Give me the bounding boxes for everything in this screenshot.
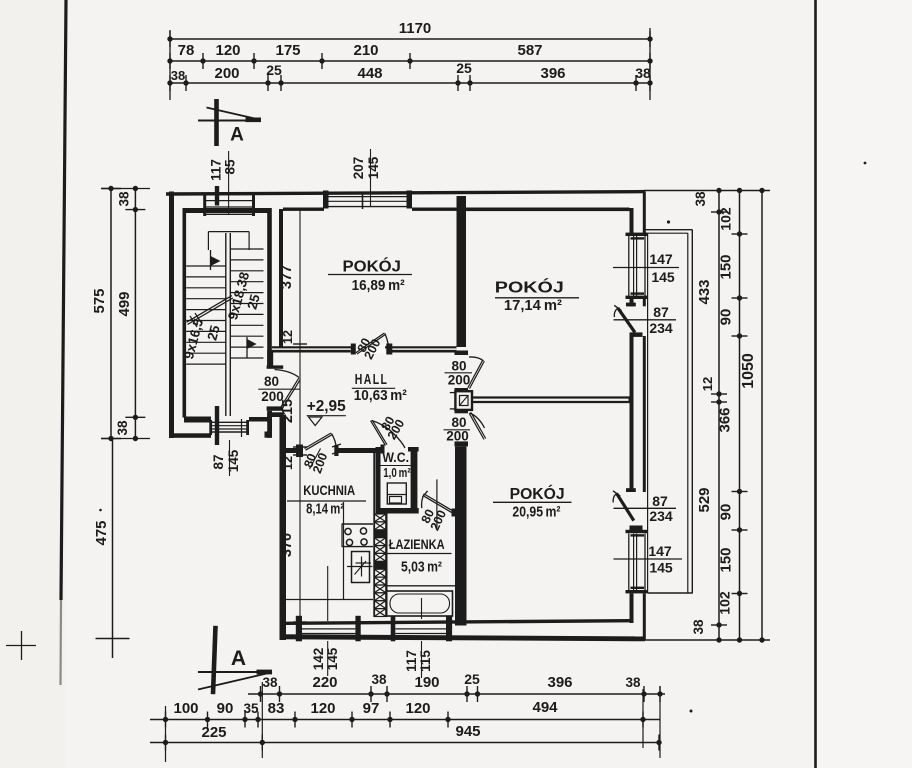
stove 4 burners: [345, 528, 351, 534]
hall west jog wall to kitchen: [267, 412, 283, 417]
svg-text:38: 38: [693, 191, 708, 207]
pokoj 16.89 top window - end caps: [323, 191, 329, 209]
staircase window 87/145 - sill lines: [210, 421, 249, 423]
svg-text:90: 90: [718, 504, 735, 521]
svg-text:117: 117: [404, 650, 419, 672]
paper speck 4: [864, 162, 867, 165]
svg-text:87: 87: [211, 454, 226, 469]
kitchen door - right post: [334, 445, 338, 456]
hall door to pokoj 17.14 - swing arc: [469, 357, 484, 361]
thin mullion line in bottom window: [241, 419, 243, 437]
svg-text:587: 587: [517, 42, 542, 59]
right door 1 - swing arc: [614, 309, 617, 317]
right door 2 - leaf: [617, 493, 634, 520]
wall staircase|pokoj - left face: [267, 208, 272, 365]
stairwell landing outline: [208, 231, 249, 233]
svg-text:234: 234: [649, 320, 673, 336]
bathtub outer: [387, 591, 453, 616]
left chain tick top inner: [125, 209, 145, 211]
bathroom door - leaf: [425, 495, 453, 512]
section mark A top - tail line: [198, 120, 247, 122]
staircase|hall door - leaf double line: [280, 378, 299, 408]
svg-text:HALL: HALL: [355, 371, 389, 388]
svg-text:145: 145: [226, 449, 241, 472]
svg-text:25: 25: [266, 62, 282, 78]
svg-text:494: 494: [532, 699, 558, 716]
right chain B line (102 150 90 366 90 150 102): [739, 191, 741, 641]
kitchen window inner ext line up: [327, 566, 329, 621]
right outer wall - outer face segments: [643, 192, 646, 234]
left chain inner line 38/499/38: [134, 189, 136, 439]
staircase central stringer double line: [225, 233, 227, 416]
paper speck 3: [690, 710, 693, 713]
wall below: hall|rooms with doors and shaft: [457, 352, 467, 355]
svg-text:377: 377: [279, 265, 295, 289]
svg-text:147: 147: [648, 543, 672, 559]
svg-text:366: 366: [717, 407, 734, 432]
svg-text:475: 475: [93, 520, 110, 545]
svg-text:220: 220: [312, 674, 337, 691]
staircase flag marker lower: [246, 337, 248, 358]
wc top wall segment left: [376, 447, 383, 452]
svg-text:145: 145: [649, 560, 673, 576]
scan border line left (skewed): [61, 0, 66, 600]
hall door - left post: [351, 344, 356, 355]
wall staircase|pokoj - right face: [279, 209, 283, 347]
right chains bottom connector line: [644, 639, 770, 641]
chimney shaft outer square: [455, 391, 472, 410]
staircase treads right flight: [231, 248, 264, 250]
chimney shaft inner square with diagonal: [460, 396, 469, 406]
staircase bottom wall - inner face: [184, 417, 211, 423]
bottom chain extension line at building left wall: [165, 706, 167, 762]
dimension line 377/12/215 interior: [299, 209, 301, 447]
wc bottom / bathroom top wall: [376, 508, 419, 514]
svg-text:145: 145: [366, 156, 381, 179]
section mark A bottom - arrow thick bar: [257, 670, 273, 675]
svg-text:448: 448: [357, 65, 382, 82]
svg-text:120: 120: [310, 700, 335, 717]
wall pokoj17.14|pokoj20.95 - lower face: [471, 401, 630, 403]
svg-text:38: 38: [371, 672, 387, 687]
svg-text:529: 529: [696, 487, 713, 512]
kitchen window - glazing lines: [302, 628, 355, 630]
svg-text:147: 147: [649, 251, 673, 267]
left chain 475 bottom tick: [96, 638, 130, 640]
wc toilet: [387, 483, 406, 504]
extension line for 117/85: [228, 151, 230, 215]
svg-text:5,03 m²: 5,03 m²: [401, 560, 442, 576]
wc right wall: [411, 449, 418, 510]
staircase top window 117/85 - sill lines: [204, 194, 255, 196]
hall door to pokoj 17.14 - posts: [455, 351, 469, 356]
bottom outer wall - outer face: [280, 634, 646, 641]
scan border line right: [814, 0, 817, 768]
svg-text:12: 12: [281, 330, 295, 344]
staircase bottom wall - corner blob right: [265, 432, 272, 438]
svg-text:38: 38: [171, 68, 185, 83]
staircase bottom wall - outer face: [169, 433, 211, 438]
extension line 87/145: [229, 440, 231, 476]
svg-text:80: 80: [451, 359, 466, 374]
svg-text:120: 120: [215, 42, 240, 59]
wc left wall: [376, 449, 381, 510]
top dimension chain line 2 (78 120 175 210 587): [170, 60, 650, 62]
bathtub inner: [390, 594, 450, 613]
svg-text:12: 12: [700, 377, 715, 391]
svg-text:1170: 1170: [399, 20, 432, 37]
bottom outer wall - inner face continuous: [286, 619, 630, 625]
hall door - swing arc: [385, 334, 389, 353]
staircase|hall door - swing arc: [275, 370, 300, 378]
bathroom window extension line: [421, 641, 423, 678]
left chain 475 line: [112, 439, 114, 659]
svg-text:35: 35: [243, 701, 259, 716]
hall door to pokoj 17.14 - leaf: [468, 360, 483, 388]
top chain right end extension line: [649, 28, 651, 100]
outer wall top - inner face pokoj 16.89: [283, 208, 324, 211]
svg-text:85: 85: [223, 159, 238, 175]
wc door - swing arc: [372, 421, 406, 449]
right door 2 - swing arc: [613, 494, 616, 503]
svg-text:12: 12: [281, 456, 295, 470]
right window 147/145 (pokoj 20.95) - caps: [626, 530, 648, 533]
kitchen window extension line: [327, 641, 329, 676]
svg-text:150: 150: [718, 254, 735, 279]
svg-text:KUCHNIA: KUCHNIA: [303, 482, 355, 498]
wc top wall right segment: [408, 447, 419, 452]
staircase top window - end caps: [203, 193, 206, 216]
svg-text:38: 38: [625, 675, 641, 690]
level mark triangle: [309, 417, 323, 426]
kitchen top wall: [280, 448, 303, 453]
hall west wall lower piece: [267, 411, 272, 438]
outer wall top - inner face staircase: [184, 208, 268, 213]
bathroom window 117/115 - end caps: [391, 616, 396, 642]
svg-text:38: 38: [635, 65, 651, 81]
kitchen left outer wall: [280, 415, 287, 641]
stray registration cross bottom-left: [6, 645, 36, 647]
svg-text:207: 207: [351, 157, 366, 180]
svg-text:499: 499: [116, 291, 133, 316]
top dimension chain line 3 (38 200 25 448 25 396 38): [170, 82, 650, 84]
svg-text:200: 200: [261, 389, 284, 404]
svg-text:38: 38: [115, 420, 130, 436]
svg-text:78: 78: [178, 42, 195, 59]
right door 2 - leaf end tick: [613, 491, 620, 496]
svg-text:38: 38: [691, 619, 706, 635]
right window 1 mullion marks: [631, 237, 645, 239]
kitchen counter edge line: [343, 502, 345, 600]
extension line for 207/145: [370, 149, 372, 207]
pokoj 16.89 top window 207/145 - lines: [324, 196, 412, 198]
hall door - right post: [386, 344, 392, 355]
svg-text:38: 38: [117, 191, 132, 207]
kitchen interior bottom line: [286, 599, 373, 601]
section mark A bottom - arrow diagonal: [198, 672, 272, 689]
svg-text:87: 87: [652, 493, 668, 509]
svg-text:ŁAZIENKA: ŁAZIENKA: [389, 536, 445, 552]
outer wall left (staircase) - outer face: [169, 192, 174, 439]
svg-text:25: 25: [456, 60, 472, 76]
right chain A line (38 433 12 529 38): [718, 191, 720, 641]
bathroom door - swing arc: [422, 494, 425, 508]
left chain tick top outer: [101, 188, 121, 190]
svg-text:234: 234: [649, 508, 673, 524]
right door 1 - leaf end tick: [614, 305, 621, 310]
svg-text:POKÓJ: POKÓJ: [343, 257, 401, 276]
kitchen door 80/200 - left post: [296, 445, 303, 458]
svg-text:POKÓJ: POKÓJ: [495, 278, 564, 297]
hall door 80/200 (to pokoj 16.89) - white opening: [352, 345, 385, 354]
staircase treads left flight: [186, 265, 226, 267]
bottom chain extension line tall at x262: [261, 682, 263, 758]
kitchen door - swing arc: [332, 434, 337, 448]
svg-text:A: A: [231, 647, 246, 670]
bathroom right wall / pokoj 20.95 left wall: [455, 447, 467, 626]
section line dash through bottom wall/window: [215, 406, 219, 445]
staircase|hall door wall upper part: [267, 352, 273, 366]
svg-text:115: 115: [418, 650, 433, 672]
svg-text:1,0 m²: 1,0 m²: [383, 466, 410, 480]
right chains top connector line: [644, 190, 770, 192]
chimney shaft left tick dashes: [450, 392, 456, 394]
bottom chain line 3 (225 945): [150, 742, 660, 744]
left chain tick bottom outer: [101, 438, 121, 440]
svg-text:150: 150: [718, 547, 735, 572]
right window 147/145 (pokoj 17.14) - caps: [626, 233, 648, 236]
section mark A bottom - cut bar: [213, 626, 216, 694]
svg-text:102: 102: [718, 207, 734, 231]
top chain left end extension line: [169, 30, 171, 100]
bathroom door - niche line: [436, 479, 438, 527]
left chain tick bottom inner: [125, 416, 145, 418]
staircase|hall door - top post bar: [267, 365, 284, 368]
svg-text:575: 575: [91, 288, 108, 313]
bottom chain line 1 (38 220 38 190 25 396 38): [248, 693, 665, 695]
svg-text:142: 142: [311, 648, 326, 671]
svg-text:1050: 1050: [740, 353, 757, 389]
svg-text:10,63 m²: 10,63 m²: [354, 387, 407, 404]
right door 87/234 (pokoj 17.14) - posts: [626, 303, 636, 307]
svg-text:87: 87: [653, 304, 669, 320]
right door 1 - leaf: [618, 308, 635, 333]
svg-text:20,95 m²: 20,95 m²: [512, 504, 560, 521]
hall door to pokoj 20.95 - swing arc: [470, 413, 485, 428]
bathtub back shelf line: [387, 585, 456, 587]
hatch X boxes kitchen|bathroom wall: [374, 514, 386, 522]
svg-text:225: 225: [201, 724, 226, 741]
svg-text:200: 200: [448, 373, 471, 388]
svg-text:175: 175: [275, 42, 300, 59]
pokoj 16.89 top window - mullion mark: [362, 194, 364, 210]
bathroom window - glazing lines: [395, 628, 446, 630]
svg-text:396: 396: [547, 674, 572, 691]
svg-text:POKÓJ: POKÓJ: [510, 484, 565, 503]
right window 2 - lines: [628, 534, 630, 591]
section mark A top - arrow thick bar: [246, 118, 262, 123]
svg-text:200: 200: [214, 65, 239, 82]
wall hall|pokoj17.14 vertical (x457-466): [457, 196, 467, 347]
staircase window 87/145 - end caps: [209, 420, 212, 435]
hall door - leaf: [356, 333, 385, 353]
section mark A top - arrow diagonal: [207, 108, 261, 120]
paper speck 2: [99, 509, 102, 512]
staircase flag marker upper: [210, 250, 212, 270]
svg-text:190: 190: [414, 674, 439, 691]
svg-text:38: 38: [262, 675, 278, 690]
svg-text:A: A: [230, 125, 244, 146]
wc door - post left: [381, 445, 385, 454]
outer wall left - inner face: [183, 208, 187, 418]
right chain C line (1050): [761, 191, 763, 641]
hall door to pokoj 20.95 - posts: [455, 410, 469, 413]
right window 2 mullion marks: [631, 534, 645, 536]
outer wall top - outer face: [166, 192, 645, 194]
svg-text:117: 117: [209, 159, 224, 181]
svg-text:83: 83: [268, 700, 285, 717]
right door 87/234 (pokoj 20.95) - posts: [626, 488, 636, 492]
right outer wall - inner face segments: [630, 208, 634, 234]
svg-text:90: 90: [217, 700, 234, 717]
svg-text:396: 396: [540, 65, 565, 82]
svg-text:102: 102: [717, 591, 733, 615]
svg-text:120: 120: [405, 700, 430, 717]
svg-text:97: 97: [363, 700, 380, 717]
staircase|hall door - bottom post bar: [267, 406, 284, 410]
svg-text:370: 370: [279, 533, 295, 557]
terrace outline right of building: [645, 229, 693, 231]
bathroom door - right post: [452, 509, 457, 517]
svg-text:945: 945: [455, 723, 480, 740]
svg-text:16,89 m²: 16,89 m²: [352, 277, 405, 294]
section mark A bottom - tail line: [198, 671, 272, 673]
stove outline partial: [342, 523, 373, 525]
wall kitchen|wc-bathroom hatched strip: [373, 449, 375, 618]
top dimension chain line 1 (1170): [170, 38, 650, 40]
svg-text:210: 210: [353, 42, 378, 59]
bathroom window inner ext line up (through tub): [421, 598, 423, 619]
wc door - leaf: [371, 421, 386, 446]
svg-text:100: 100: [173, 700, 198, 717]
bottom chain line 2 (100 90 35 83 120 97 120 494): [150, 719, 660, 721]
left chain outer line 575: [110, 189, 112, 439]
wall pokoj17.14|pokoj20.95 - upper face: [471, 396, 630, 398]
kitchen sink with cross: [352, 552, 370, 583]
svg-text:433: 433: [696, 279, 713, 304]
section line dash through top wall/window: [215, 186, 219, 206]
wall pokoj16.89|hall - lower face: [267, 350, 351, 353]
svg-text:80: 80: [264, 374, 279, 389]
svg-text:90: 90: [718, 309, 735, 326]
kitchen window 142/145 - end caps: [296, 616, 302, 642]
svg-text:145: 145: [651, 269, 675, 285]
bathroom door - leaf end tick: [422, 491, 427, 497]
paper speck 1: [667, 220, 670, 223]
wall pokoj16.89|hall - upper face: [272, 346, 457, 348]
hall door to pokoj 20.95 - leaf: [469, 413, 484, 439]
svg-text:8,14 m²: 8,14 m²: [306, 502, 344, 518]
right window 1 - lines: [628, 236, 630, 296]
outer wall top - inner face pokoj 17.14: [464, 208, 630, 212]
staircase direction line with barbs: [187, 296, 232, 323]
bottom chain extension right end: [659, 686, 661, 758]
dimension line 12/370 kitchen interior: [299, 455, 301, 622]
svg-text:+2,95: +2,95: [307, 398, 346, 415]
svg-text:200: 200: [446, 429, 469, 444]
svg-text:17,14 m²: 17,14 m²: [504, 297, 562, 314]
section mark A top - cut bar: [214, 99, 219, 146]
kitchen door - leaf: [305, 433, 332, 449]
svg-text:W.C.: W.C.: [382, 450, 409, 465]
svg-text:25: 25: [464, 671, 480, 687]
